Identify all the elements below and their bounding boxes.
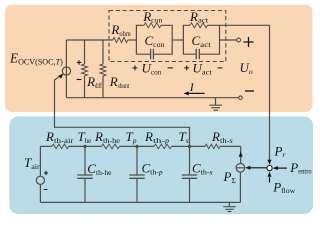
- capacitor Cth-p: [136, 146, 138, 202]
- resistor Ract: [190, 23, 208, 28]
- RC network 1 box wires: [136, 25, 150, 54]
- wire Pentro arrow: [276, 167, 287, 169]
- resistor Rshunt: [102, 40, 104, 64]
- arrowhead Pr down into node: [268, 160, 272, 165]
- polarity minus of Tair: [44, 189, 48, 191]
- arrowhead Psigma up: [239, 152, 243, 157]
- wire left branch vertical: [65, 40, 67, 98]
- resistor Rohm: [113, 37, 128, 42]
- voltage source EOCV circle: [62, 67, 70, 75]
- wire Pflow arrow: [269, 177, 271, 182]
- node Ts: [188, 145, 191, 148]
- resistor Rth-s: [205, 144, 220, 149]
- label + Uact -: [184, 65, 189, 70]
- ground thermal: [223, 202, 236, 211]
- label + Ucon -: [133, 65, 138, 70]
- arrowhead feedback: [58, 74, 63, 79]
- resistor Rth-p: [154, 144, 172, 149]
- wire thermal rail: [40, 145, 240, 147]
- plus terminal symbol: [244, 37, 254, 47]
- node The: [83, 145, 86, 148]
- wire Tair branch: [39, 146, 41, 202]
- wire node to Psigma with arrowhead: [250, 167, 267, 169]
- resistor Rcon: [144, 23, 161, 28]
- wire to + terminal: [220, 39, 237, 41]
- RC network 2 box wires: [183, 25, 196, 54]
- wire rail Rohm to RC box 1: [128, 39, 137, 41]
- current arrow I: [188, 92, 205, 94]
- node Tp: [135, 145, 138, 148]
- wire temperature feedback Ts to EOCV: [55, 75, 190, 147]
- dashed polarization box: [109, 11, 226, 62]
- terminal + circle: [237, 38, 241, 42]
- polarity minus of EOCV: [77, 79, 82, 81]
- wire top tap to thermal node: [220, 25, 270, 160]
- resistor Rth-he: [102, 144, 120, 149]
- capacitor Cth-he: [84, 146, 86, 202]
- ground electrical: [209, 98, 222, 111]
- source Tair circle: [36, 176, 44, 184]
- wire thermal bottom rail: [40, 201, 240, 203]
- node heat summing junction: [267, 166, 272, 171]
- thermal model background panel: [9, 116, 313, 214]
- resistor Rdiff: [84, 40, 86, 64]
- source Psigma circle: [236, 164, 245, 173]
- minus terminal symbol: [245, 90, 254, 92]
- terminal - circle: [239, 96, 243, 100]
- wire Psigma to bottom rail: [239, 172, 241, 202]
- polarity plus of Tair: [44, 171, 48, 175]
- wire between RC boxes: [172, 39, 183, 41]
- capacitor Cth-s: [189, 146, 191, 202]
- polarity plus of EOCV: [77, 60, 81, 64]
- resistor Rth-air: [52, 144, 69, 149]
- wire top rail left section: [66, 39, 112, 41]
- capacitor Cact: [196, 49, 199, 59]
- wire bottom rail: [66, 97, 238, 99]
- capacitor Ccon: [151, 49, 154, 59]
- wire rail to Psigma: [240, 146, 242, 163]
- electrical model background panel: [5, 5, 313, 112]
